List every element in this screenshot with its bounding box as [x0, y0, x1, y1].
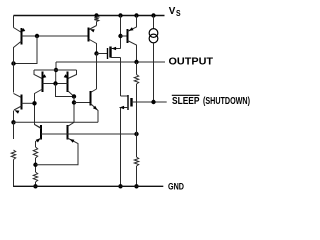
svg-text:SLEEP: SLEEP	[172, 96, 200, 107]
svg-text:S: S	[176, 9, 181, 18]
svg-text:OUTPUT: OUTPUT	[169, 56, 214, 67]
svg-text:GND: GND	[168, 182, 184, 192]
svg-text:(SHUTDOWN): (SHUTDOWN)	[203, 96, 250, 107]
svg-text:V: V	[169, 5, 176, 17]
